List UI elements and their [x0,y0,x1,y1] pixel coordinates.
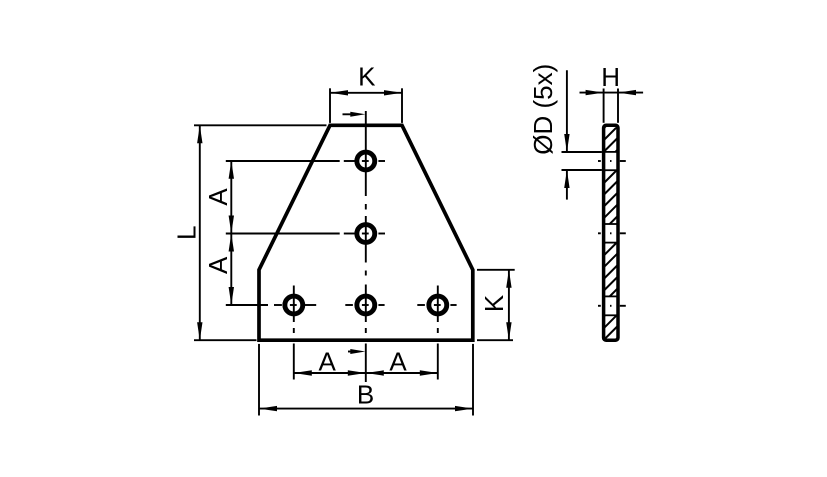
svg-text:A: A [203,188,233,206]
svg-text:H: H [601,62,620,92]
svg-text:ØD (5x): ØD (5x) [528,64,558,155]
svg-text:A: A [389,347,407,377]
svg-text:A: A [319,347,337,377]
svg-text:K: K [479,294,509,312]
svg-text:K: K [358,62,376,92]
svg-text:L: L [172,225,202,239]
svg-text:A: A [203,256,233,274]
svg-text:B: B [357,380,374,410]
